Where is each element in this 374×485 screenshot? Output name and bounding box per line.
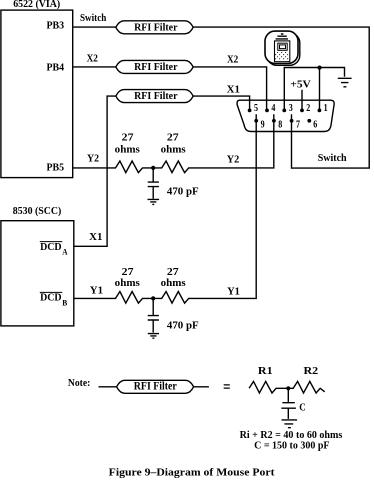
svg-text:5: 5 (254, 103, 258, 114)
svg-text:9: 9 (261, 119, 265, 130)
svg-text:X2: X2 (87, 53, 98, 64)
svg-text:6522 (VIA): 6522 (VIA) (13, 0, 60, 10)
svg-text:6: 6 (313, 119, 317, 130)
svg-text:B: B (62, 298, 68, 307)
svg-text:C = 150 to 300 pF: C = 150 to 300 pF (254, 440, 329, 451)
svg-text:ohms: ohms (115, 145, 140, 156)
svg-text:R2: R2 (304, 366, 319, 377)
svg-text:7: 7 (296, 119, 300, 130)
svg-text:Switch: Switch (80, 13, 107, 24)
svg-text:Note:: Note: (68, 378, 90, 389)
svg-text:X1: X1 (89, 232, 102, 243)
svg-text:C: C (299, 402, 306, 413)
svg-text:Figure 9–Diagram of Mouse Port: Figure 9–Diagram of Mouse Port (109, 467, 276, 478)
svg-text:27: 27 (122, 267, 134, 278)
svg-text:1: 1 (324, 103, 328, 114)
svg-text:RFI Filter: RFI Filter (134, 91, 178, 102)
svg-text:2: 2 (306, 103, 310, 114)
svg-text:ohms: ohms (161, 278, 186, 289)
svg-text:RFI Filter: RFI Filter (134, 22, 178, 33)
svg-text:ohms: ohms (161, 145, 186, 156)
svg-text:RFI Filter: RFI Filter (134, 381, 177, 393)
svg-text:3: 3 (289, 103, 293, 114)
svg-text:A: A (62, 248, 68, 257)
svg-text:Y2: Y2 (227, 154, 240, 165)
svg-text:Y1: Y1 (90, 286, 103, 297)
svg-text:Switch: Switch (318, 153, 347, 164)
svg-text:4: 4 (271, 103, 276, 114)
svg-text:X2: X2 (227, 54, 238, 65)
svg-text:470 pF: 470 pF (167, 187, 199, 198)
svg-text:X1: X1 (227, 84, 240, 95)
svg-text:PB5: PB5 (47, 162, 65, 173)
svg-text:Y1: Y1 (227, 286, 240, 297)
svg-text:R1: R1 (258, 366, 273, 377)
svg-text:PB3: PB3 (47, 21, 65, 32)
svg-text:8530 (SCC): 8530 (SCC) (13, 206, 62, 217)
svg-text:+5V: +5V (290, 79, 311, 90)
svg-text:27: 27 (122, 133, 134, 144)
svg-text:PB4: PB4 (47, 63, 65, 74)
svg-text:Y2: Y2 (87, 153, 99, 164)
svg-text:RFI Filter: RFI Filter (134, 62, 178, 73)
svg-text:27: 27 (167, 133, 179, 144)
svg-text:470 pF: 470 pF (167, 321, 199, 332)
svg-text:ohms: ohms (115, 278, 140, 289)
svg-text:27: 27 (167, 267, 179, 278)
svg-text:DCD: DCD (40, 293, 62, 304)
svg-text:DCD: DCD (40, 242, 62, 253)
svg-text:8: 8 (278, 119, 282, 130)
